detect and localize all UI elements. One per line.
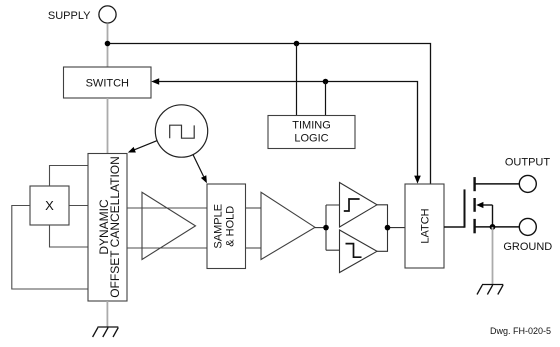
wire source to ground terminal bbox=[475, 226, 520, 228]
wire A2 output stub bbox=[315, 227, 326, 229]
wire X left loop to DOC bbox=[12, 206, 88, 290]
block TIMING LOGIC bbox=[268, 116, 355, 149]
svg-text:& HOLD: & HOLD bbox=[225, 206, 237, 247]
arrow clock to offset-cancel bbox=[134, 141, 157, 150]
ground symbol right bbox=[477, 285, 503, 295]
block X hall element bbox=[30, 186, 69, 225]
wire X top to DOC bbox=[50, 166, 89, 187]
svg-text:OUTPUT: OUTPUT bbox=[505, 157, 551, 169]
wire S&H lower output bbox=[246, 247, 262, 249]
amplifier A1 bbox=[142, 192, 196, 259]
svg-text:SWITCH: SWITCH bbox=[86, 78, 129, 90]
hysteresis glyph upper bbox=[344, 199, 360, 211]
wire merge bar right bbox=[377, 205, 405, 252]
junction timing rail1 bbox=[294, 41, 300, 47]
junction merge bbox=[385, 225, 391, 231]
transistor Q1 channel segments bbox=[473, 177, 475, 191]
block SWITCH bbox=[64, 67, 152, 98]
wire to ground symbol right bbox=[492, 227, 494, 284]
wire DOC upper output to sample-hold bbox=[127, 207, 207, 209]
junction timing rail2 bbox=[323, 79, 329, 85]
svg-text:SUPPLY: SUPPLY bbox=[48, 10, 91, 22]
svg-text:LATCH: LATCH bbox=[420, 208, 432, 243]
arrowhead into switch bbox=[151, 78, 159, 85]
wire S&H upper output bbox=[246, 207, 262, 209]
ground symbol left bbox=[93, 327, 119, 337]
svg-text:GROUND: GROUND bbox=[503, 241, 552, 253]
junction source bbox=[490, 224, 496, 230]
transistor Q1 gate bar bbox=[464, 189, 466, 227]
block SAMPLE & HOLD bbox=[207, 184, 246, 269]
wire supply to switch bbox=[107, 23, 109, 67]
wire DOC to ground symbol bbox=[106, 301, 108, 327]
wire timing logic to rail2 bbox=[325, 82, 327, 116]
schmitt trigger upper bbox=[340, 183, 378, 228]
block LATCH bbox=[405, 184, 444, 268]
svg-text:LOGIC: LOGIC bbox=[294, 133, 328, 145]
hysteresis glyph lower bbox=[346, 244, 362, 258]
junction supply rail bbox=[105, 41, 111, 47]
arrowhead into latch top bbox=[414, 176, 421, 184]
wire latch to gate bbox=[444, 226, 465, 228]
arrow clock to sample-hold bbox=[193, 155, 204, 177]
svg-text:OFFSET CANCELLATION: OFFSET CANCELLATION bbox=[108, 156, 122, 298]
wire switch to offset-cancel block bbox=[107, 98, 109, 154]
terminal OUTPUT circle bbox=[519, 175, 536, 192]
terminal GROUND circle bbox=[519, 218, 536, 235]
wire splitter bar left bbox=[326, 205, 340, 250]
block DYNAMIC OFFSET CANCELLATION bbox=[88, 154, 127, 302]
wire timing logic to rail1 bbox=[296, 44, 298, 116]
wire X right to DOC bbox=[69, 205, 88, 207]
svg-text:X: X bbox=[45, 198, 54, 213]
schmitt trigger lower bbox=[340, 230, 378, 273]
oscillator clock circle bbox=[155, 105, 207, 157]
terminal SUPPLY circle bbox=[99, 6, 116, 23]
transistor body arrow bbox=[482, 204, 493, 206]
junction splitter bbox=[323, 225, 329, 231]
wire X bottom to DOC bbox=[50, 225, 89, 247]
wire DOC lower output to sample-hold bbox=[127, 247, 207, 249]
svg-text:SAMPLE: SAMPLE bbox=[212, 204, 224, 249]
svg-text:Dwg. FH-020-5: Dwg. FH-020-5 bbox=[490, 326, 551, 336]
wire rail2 timing to switch bbox=[159, 82, 418, 178]
wire drain to output bbox=[475, 183, 520, 185]
svg-text:TIMING: TIMING bbox=[292, 120, 331, 132]
amplifier A2 bbox=[261, 192, 315, 259]
clock waveform glyph bbox=[170, 125, 195, 138]
wire top rail to latch bbox=[108, 44, 431, 185]
